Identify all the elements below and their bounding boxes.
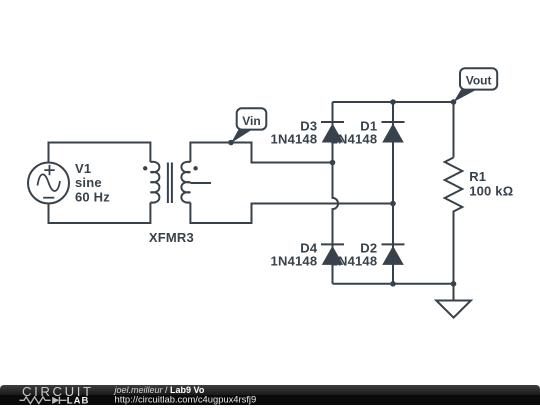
- resistor R1: [445, 158, 463, 284]
- CircuitLab logo: [20, 384, 94, 407]
- wire: bridge left branch with hop: [333, 102, 339, 284]
- diode D2: [382, 244, 405, 265]
- label R1 100 kOhm: [469, 169, 513, 199]
- footer bar: [0, 385, 540, 405]
- node Vin callout: [231, 108, 266, 143]
- svg-text:LAB: LAB: [67, 396, 90, 405]
- transformer XFMR3 secondary winding: [181, 162, 190, 203]
- junction: lower mid wire to right branch: [390, 201, 396, 207]
- wire: secondary top to bridge (node Vin): [190, 143, 332, 163]
- junction: upper mid wire to left branch: [330, 160, 336, 166]
- svg-text:http://circuitlab.com/c4ugpux4: http://circuitlab.com/c4ugpux4rsfj9: [115, 394, 257, 405]
- wire: secondary bottom to bridge: [190, 203, 393, 224]
- svg-text:V1: V1: [75, 161, 91, 176]
- wire: Vout branch down to R1 and ground: [453, 102, 455, 158]
- label V1 value: [75, 161, 110, 205]
- svg-text:100 kΩ: 100 kΩ: [469, 184, 513, 199]
- label D2 1N4148: [331, 241, 378, 269]
- wire: bridge top rail: [333, 101, 454, 103]
- wire: ground stem: [453, 284, 455, 301]
- svg-text:1N4148: 1N4148: [331, 254, 378, 269]
- footer credit text: [114, 385, 257, 405]
- label D3 1N4148: [271, 118, 318, 146]
- ground: [436, 301, 471, 318]
- svg-text:Vout: Vout: [466, 74, 492, 88]
- wire: V1 bottom to transformer primary: [49, 203, 151, 224]
- svg-text:R1: R1: [469, 169, 486, 184]
- transformer primary phase dot: [143, 166, 147, 170]
- voltage source V1: [28, 163, 69, 204]
- transformer XFMR3 core: [168, 163, 172, 204]
- diode D3: [321, 122, 344, 143]
- svg-text:60 Hz: 60 Hz: [75, 190, 110, 205]
- svg-text:1N4148: 1N4148: [271, 254, 318, 269]
- svg-text:Vin: Vin: [242, 114, 260, 128]
- junction: top rail and right branch: [390, 99, 396, 105]
- junction: bottom rail and right branch: [390, 281, 396, 287]
- wire: V1 top to transformer primary: [49, 143, 151, 163]
- junction: Vout node dot: [451, 99, 457, 105]
- wire: bridge right branch: [392, 102, 394, 284]
- svg-text:1N4148: 1N4148: [331, 131, 378, 146]
- node Vout callout: [454, 68, 498, 102]
- diode D4: [321, 244, 344, 265]
- label D4 1N4148: [271, 241, 318, 269]
- junction: Vin node dot: [228, 140, 234, 146]
- transformer secondary phase dot: [193, 166, 197, 170]
- junction: bottom rail and ground branch: [451, 281, 457, 287]
- transformer XFMR3 primary winding: [150, 162, 159, 203]
- wire: bridge bottom rail: [333, 283, 454, 285]
- transformer XFMR3 center tap stub: [190, 182, 211, 184]
- svg-text:XFMR3: XFMR3: [149, 230, 194, 245]
- label D1 1N4148: [331, 118, 378, 146]
- svg-text:1N4148: 1N4148: [271, 131, 318, 146]
- diode D1: [382, 122, 405, 143]
- svg-text:sine: sine: [75, 175, 102, 190]
